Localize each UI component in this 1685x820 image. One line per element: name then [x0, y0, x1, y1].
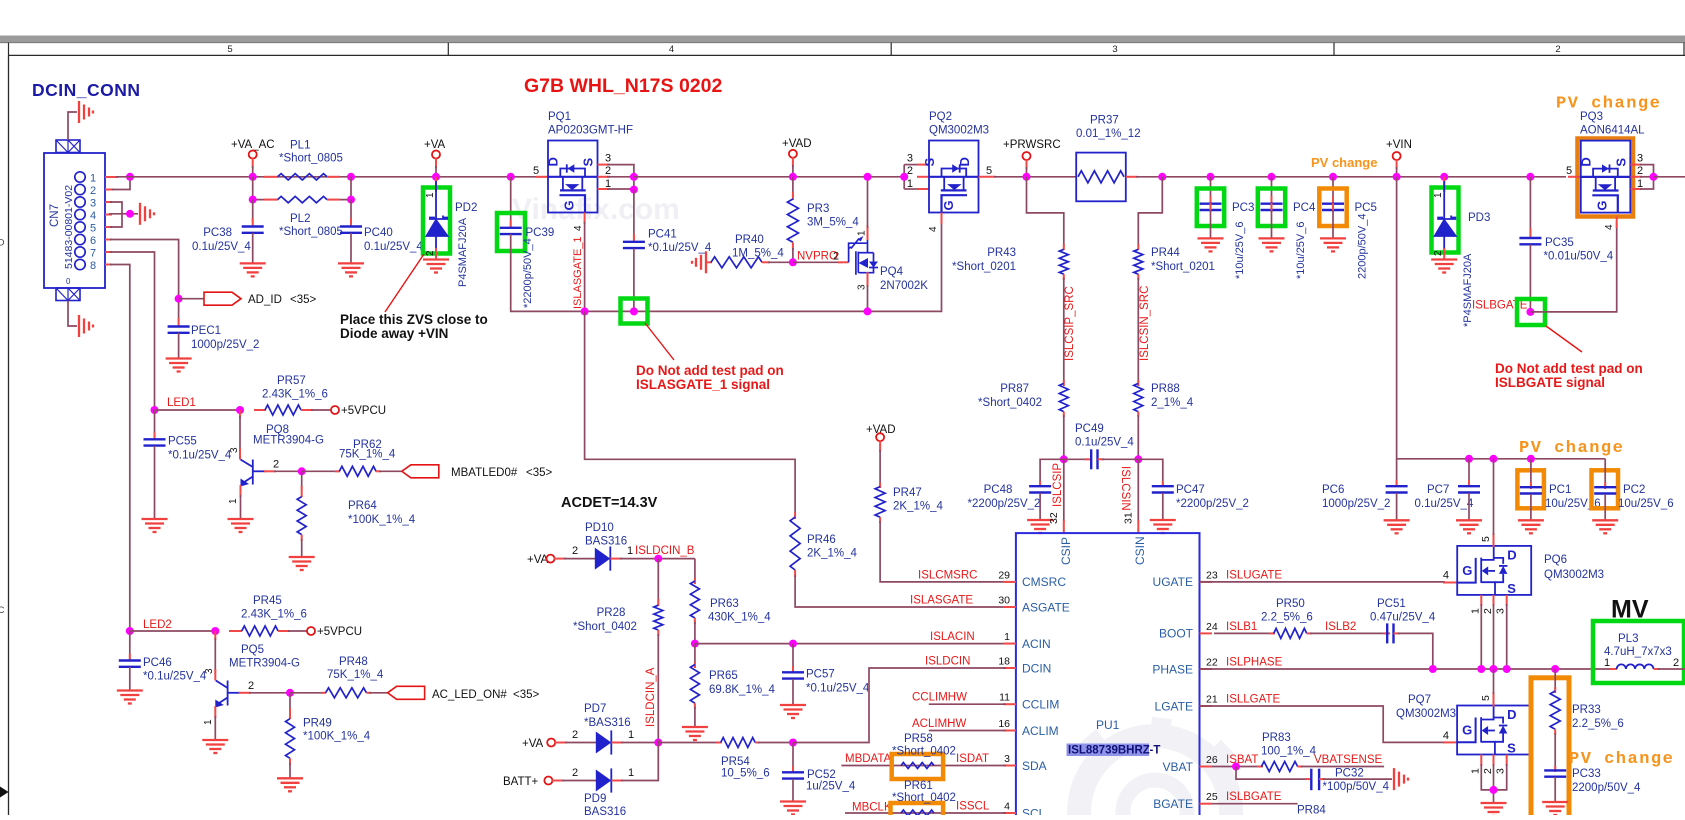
- resistor PR40: [711, 257, 762, 268]
- wire CCLIMHW: [929, 703, 1006, 705]
- CN7 pin4 wire: [105, 214, 112, 216]
- svg-text:*10u/25V_6: *10u/25V_6: [1295, 222, 1307, 280]
- svg-text:PC7: PC7: [1427, 484, 1449, 496]
- svg-text:3: 3: [1495, 608, 1507, 614]
- resistor PR65: [694, 644, 696, 666]
- svg-text:AON6414AL: AON6414AL: [1580, 125, 1645, 137]
- CN7 pin5 wire: [105, 226, 112, 228]
- node +VAD junction: [789, 173, 797, 181]
- svg-text:PR57: PR57: [277, 375, 306, 387]
- svg-text:1: 1: [907, 178, 913, 190]
- svg-text:*2200p/50V_4: *2200p/50V_4: [522, 238, 534, 308]
- node PQ1 pin1 junction: [630, 186, 638, 194]
- svg-text:LED1: LED1: [167, 397, 196, 409]
- ground at CN7 top: [78, 101, 80, 123]
- svg-text:PV change: PV change: [1311, 155, 1377, 170]
- svg-text:2: 2: [90, 185, 96, 197]
- svg-text:PQ4: PQ4: [880, 266, 904, 278]
- node LED2 left junction: [126, 627, 134, 635]
- highlight ISL88739BHRZ: [1067, 744, 1150, 757]
- callout line ISLBGATE note: [1546, 326, 1582, 352]
- svg-text:PL2: PL2: [290, 213, 310, 225]
- CN7 bottom mounting pad: [56, 288, 80, 301]
- svg-text:ISLPHASE: ISLPHASE: [1226, 657, 1283, 669]
- pin CMSRC 29 stub: [1003, 581, 1016, 583]
- svg-text:PC6: PC6: [1322, 484, 1344, 496]
- wire +VAD to PR47: [879, 441, 881, 453]
- svg-text:1: 1: [857, 230, 868, 236]
- wire rail to right edge: [1654, 176, 1685, 178]
- svg-text:+VA: +VA: [522, 738, 544, 750]
- capacitor PC4: [1261, 202, 1283, 204]
- resistor PR48: [290, 692, 326, 694]
- wire PD7 to junction: [611, 742, 623, 744]
- wire PQ4 drain to rail: [867, 225, 869, 240]
- svg-text:ISDAT: ISDAT: [956, 753, 989, 765]
- node PL1 right junction: [347, 173, 355, 181]
- svg-text:PC48: PC48: [984, 484, 1013, 496]
- node PL2 left: [249, 196, 257, 204]
- node PC57 junction: [789, 640, 797, 648]
- svg-text:1: 1: [425, 192, 436, 198]
- wire PC1 to ground: [1530, 494, 1532, 520]
- resistor PR63: [694, 578, 696, 584]
- svg-text:2: 2: [1482, 608, 1494, 614]
- frame arrow marker: [0, 787, 9, 798]
- resistor PR50: [1214, 632, 1274, 634]
- svg-text:8: 8: [90, 260, 96, 272]
- PQ8 emitter to ground: [240, 485, 242, 497]
- svg-text:3: 3: [605, 153, 611, 165]
- svg-text:*0.1u/25V_4: *0.1u/25V_4: [806, 683, 870, 695]
- pin UGATE 23 stub: [1200, 581, 1213, 583]
- pin CCLIM 11 stub: [1003, 703, 1016, 705]
- svg-text:ISBAT: ISBAT: [1226, 754, 1258, 766]
- wire ISLBGATE to PQ3 gate: [1530, 222, 1616, 312]
- svg-text:ACIN: ACIN: [1022, 637, 1051, 651]
- CN7 pin6 wire to AD_ID: [105, 239, 112, 241]
- highlight green box PD3: [1432, 188, 1459, 253]
- svg-text:PR44: PR44: [1151, 247, 1180, 259]
- node +VIN junction: [1393, 173, 1401, 181]
- svg-text:3: 3: [204, 668, 215, 674]
- svg-text:32: 32: [1048, 512, 1060, 524]
- node PQ8 base junction: [298, 467, 306, 475]
- svg-text:PD7: PD7: [584, 703, 606, 715]
- CN7 pin1 stub: [105, 176, 118, 178]
- wire CSIP pin stub: [1063, 459, 1065, 522]
- svg-text:G: G: [562, 200, 577, 210]
- ic PU1 box: [1016, 533, 1200, 820]
- svg-text:DCIN: DCIN: [1022, 661, 1051, 675]
- svg-text:BOOT: BOOT: [1159, 627, 1194, 641]
- svg-text:*Short_0402: *Short_0402: [892, 746, 956, 758]
- resistor PR45: [229, 630, 242, 632]
- svg-text:*Short_0402: *Short_0402: [892, 792, 956, 804]
- wire PC2 to ground: [1604, 494, 1606, 520]
- svg-text:BAS316: BAS316: [584, 806, 626, 815]
- svg-text:2: 2: [1637, 165, 1643, 177]
- svg-text:4.7uH_7x7x3: 4.7uH_7x7x3: [1604, 646, 1672, 658]
- wire PQ4 source to ISLASGATE_1 rail: [867, 272, 869, 287]
- svg-text:18: 18: [998, 656, 1010, 668]
- node PQ6 drain junction: [1490, 455, 1498, 463]
- ground below PC48: [1027, 519, 1053, 521]
- wire ISLASGATE_1 bottom rail: [548, 222, 942, 311]
- svg-text:2.43K_1%_6: 2.43K_1%_6: [241, 609, 307, 621]
- capacitor PC55: [154, 410, 156, 438]
- CN7 pin3 wire: [105, 201, 112, 203]
- svg-text:PR84: PR84: [1297, 805, 1326, 816]
- resistor PR54: [658, 742, 720, 744]
- svg-text:3: 3: [907, 153, 913, 165]
- svg-text:Place this ZVS close to: Place this ZVS close to: [340, 312, 488, 327]
- pin ACLIM 16 stub: [1003, 730, 1016, 732]
- ground below PC3: [1198, 237, 1224, 239]
- svg-text:ACDET=14.3V: ACDET=14.3V: [561, 495, 658, 511]
- node PQ3 rail junction: [1650, 173, 1658, 181]
- svg-text:1: 1: [1470, 768, 1482, 774]
- highlight orange box PC1: [1517, 470, 1544, 508]
- svg-text:PC49: PC49: [1075, 423, 1104, 435]
- wire ISLACIN: [695, 643, 1016, 645]
- svg-text:ISLCSIN_SRC: ISLCSIN_SRC: [1139, 286, 1151, 361]
- svg-text:METR3904-G: METR3904-G: [253, 435, 324, 447]
- wire PR65 to ground: [694, 707, 696, 727]
- svg-text:+VAD: +VAD: [782, 138, 812, 150]
- capacitor PC40: [350, 200, 352, 222]
- node PC52 junction: [789, 739, 797, 747]
- svg-text:*2200p/25V_2: *2200p/25V_2: [1176, 498, 1249, 510]
- wire CN7 bottom pad to ground: [68, 301, 77, 327]
- svg-text:BGATE: BGATE: [1153, 797, 1193, 811]
- svg-text:2N7002K: 2N7002K: [880, 280, 928, 292]
- svg-text:PC3: PC3: [1232, 202, 1254, 214]
- wire ISBAT row: [1212, 766, 1263, 768]
- svg-text:1: 1: [627, 545, 633, 557]
- node ISLASGATE_1 gate junction: [581, 307, 589, 315]
- svg-text:PQ1: PQ1: [548, 111, 571, 123]
- svg-text:<35>: <35>: [290, 294, 317, 306]
- svg-text:QM3002M3: QM3002M3: [1544, 569, 1604, 581]
- ground at CN7 pins345: [139, 203, 141, 225]
- svg-text:CMSRC: CMSRC: [1022, 575, 1066, 589]
- pin5 stub PQ1: [536, 176, 548, 178]
- watermark gear: [1065, 718, 1248, 820]
- svg-text:2: 2: [1433, 250, 1444, 256]
- svg-text:+VA_AC: +VA_AC: [231, 139, 275, 151]
- pin DCIN 18 stub: [1003, 667, 1016, 669]
- svg-text:PR28: PR28: [597, 607, 626, 619]
- ruler ticks: [8, 43, 10, 56]
- PQ6 pins 1-2-3 to PHASE: [1480, 595, 1482, 606]
- wire +VA_AC to rail: [252, 158, 254, 168]
- node PHASE PQ6 pin1: [1477, 665, 1485, 673]
- resistor PR46: [794, 512, 796, 519]
- wire NVPRO to PQ4 gate: [793, 261, 842, 263]
- svg-text:*100K_1%_4: *100K_1%_4: [303, 731, 371, 743]
- svg-text:PR63: PR63: [710, 598, 739, 610]
- svg-text:D: D: [957, 157, 972, 166]
- wire PC41 to ISLASGATE_1 rail: [633, 249, 635, 312]
- node ISLCSIN junction: [1134, 455, 1142, 463]
- pin ACIN 1 stub: [1003, 643, 1016, 645]
- svg-text:D: D: [0, 238, 5, 249]
- resistor PR37 box: [1076, 153, 1126, 202]
- wire PR63 to ACIN node: [694, 622, 696, 644]
- svg-text:PR48: PR48: [339, 656, 368, 668]
- svg-text:PR46: PR46: [807, 534, 836, 546]
- svg-text:25: 25: [1206, 791, 1218, 803]
- wire ground to PR40: [706, 261, 712, 263]
- node PL2 right: [347, 196, 355, 204]
- wire ISLLGATE to PQ7 gate: [1200, 706, 1446, 742]
- svg-text:+5VPCU: +5VPCU: [317, 626, 362, 638]
- svg-text:G: G: [1594, 200, 1609, 210]
- svg-text:PC32: PC32: [1335, 768, 1364, 780]
- ground below PC4: [1259, 237, 1285, 239]
- node LED2 PQ5 junction: [211, 627, 219, 635]
- ground at CN7 bottom: [78, 315, 80, 337]
- wire PC39 down to ISLASGATE_1 rail: [511, 234, 548, 311]
- svg-text:ISLB2: ISLB2: [1325, 621, 1356, 633]
- wire PC47 branch: [1138, 459, 1163, 486]
- svg-text:D: D: [546, 157, 561, 166]
- svg-text:G: G: [1462, 563, 1472, 578]
- CN7 pin circles: [75, 172, 85, 270]
- wire +VA to rail: [435, 158, 437, 168]
- wire PC52 to ground: [792, 779, 794, 801]
- node PQ4 drain rail junction: [864, 173, 872, 181]
- callout line ISLASGATE_1 note: [645, 323, 674, 360]
- svg-text:3M_5%_4: 3M_5%_4: [807, 217, 859, 229]
- svg-text:1: 1: [90, 173, 96, 185]
- node PC35 rail junction: [1526, 173, 1534, 181]
- svg-text:PC51: PC51: [1377, 598, 1406, 610]
- wire PHASE to PR33: [1554, 669, 1556, 692]
- PQ5 emitter to ground: [214, 706, 216, 718]
- capacitor PC6: [1396, 459, 1398, 486]
- svg-text:Do Not add test pad on: Do Not add test pad on: [1495, 361, 1643, 376]
- wire PD2 to ground: [435, 248, 437, 259]
- svg-text:4: 4: [669, 44, 674, 55]
- svg-text:+VIN: +VIN: [1386, 139, 1412, 151]
- highlight box PC5: [1319, 189, 1346, 227]
- svg-text:PC40: PC40: [364, 227, 393, 239]
- PQ2 gate stub: [941, 213, 943, 225]
- svg-text:MBCLK: MBCLK: [852, 802, 892, 814]
- node PD3 rail junction: [1440, 173, 1448, 181]
- node PC7 junction: [1465, 455, 1473, 463]
- wire PC7 to ground: [1468, 493, 1470, 520]
- ruler line: [8, 54, 1685, 56]
- ground right of PC32: [1393, 768, 1395, 790]
- svg-text:MBDATA: MBDATA: [845, 753, 892, 765]
- svg-text:PR58: PR58: [904, 733, 933, 745]
- wire PQ7 drain pin5 to PHASE: [1493, 692, 1495, 707]
- wire +VA to PD10: [554, 558, 566, 560]
- wire PQ6 drain pin5: [1493, 533, 1495, 547]
- svg-text:1000p/25V_2: 1000p/25V_2: [1322, 498, 1390, 510]
- svg-text:2K_1%_4: 2K_1%_4: [893, 501, 943, 513]
- svg-text:*10u/25V_6: *10u/25V_6: [1234, 222, 1246, 280]
- svg-text:75K_1%_4: 75K_1%_4: [327, 669, 384, 681]
- svg-text:PV change: PV change: [1519, 439, 1624, 458]
- svg-text:D: D: [1507, 707, 1516, 722]
- svg-text:4: 4: [1604, 224, 1615, 230]
- CN7 pin8 wire down to LED2: [105, 264, 112, 266]
- svg-text:2_1%_4: 2_1%_4: [1151, 397, 1194, 409]
- svg-text:7: 7: [90, 248, 96, 260]
- wire PC41 branch: [633, 190, 635, 240]
- svg-text:PQ2: PQ2: [929, 111, 952, 123]
- node LED1 PQ8 junction: [236, 406, 244, 414]
- svg-text:ISLBGATE signal: ISLBGATE signal: [1495, 375, 1605, 390]
- svg-text:PR47: PR47: [893, 487, 922, 499]
- wire CN7 top pad to ground: [68, 112, 77, 140]
- node ISLBGATE junction: [1526, 308, 1534, 316]
- svg-text:AP0203GMT-HF: AP0203GMT-HF: [548, 125, 633, 137]
- svg-text:PC38: PC38: [203, 227, 232, 239]
- ground below PC55: [142, 518, 168, 520]
- svg-text:4: 4: [1443, 570, 1449, 582]
- resistor PR58 short: [901, 763, 934, 769]
- inductor PL3: [1610, 668, 1617, 670]
- ground below PR65: [682, 726, 708, 728]
- wire ISLDCIN_A mid: [657, 634, 659, 743]
- capacitor PC3: [1200, 202, 1222, 204]
- svg-text:<35>: <35>: [513, 689, 540, 701]
- wire PC4 branch: [1271, 177, 1273, 200]
- wire +VIN to rail: [1396, 159, 1398, 169]
- svg-text:1u/25V_4: 1u/25V_4: [806, 781, 856, 793]
- svg-text:PD10: PD10: [585, 522, 614, 534]
- resistor PR57: [254, 409, 266, 411]
- svg-text:1: 1: [1604, 657, 1610, 669]
- wire ISLASGATE_1 to PR46: [585, 311, 796, 519]
- ground below PC1: [1518, 519, 1544, 521]
- resistor PR62: [302, 470, 340, 472]
- highlight orange box PC2: [1592, 470, 1619, 508]
- wire PR64 to ground: [301, 539, 303, 557]
- svg-text:MBATLED0#: MBATLED0#: [451, 467, 518, 479]
- svg-text:PC35: PC35: [1545, 237, 1574, 249]
- svg-text:1M_5%_4: 1M_5%_4: [732, 248, 784, 260]
- svg-text:*BAS316: *BAS316: [584, 717, 631, 729]
- connector CN7 body: [44, 153, 105, 288]
- netflag AD_ID: [204, 292, 241, 305]
- svg-text:S: S: [581, 158, 596, 167]
- svg-text:PC2: PC2: [1623, 484, 1645, 496]
- svg-text:5: 5: [90, 223, 96, 235]
- svg-text:2: 2: [248, 680, 254, 692]
- capacitor PC1: [1530, 459, 1532, 488]
- svg-text:PQ7: PQ7: [1408, 694, 1431, 706]
- wire PC6 to ground: [1396, 493, 1398, 520]
- highlight orange box PR33 PC33: [1531, 678, 1569, 818]
- capacitor PEC1: [178, 318, 180, 326]
- svg-text:2.2_5%_6: 2.2_5%_6: [1261, 612, 1313, 624]
- wire +VAD to rail: [792, 157, 794, 167]
- wire CSIN pin stub: [1137, 459, 1139, 522]
- svg-text:QM3002M3: QM3002M3: [1396, 708, 1456, 720]
- wire rail PQ1 to PQ2: [634, 176, 904, 178]
- svg-text:30: 30: [998, 595, 1010, 607]
- node PQ7 source junction: [1490, 786, 1498, 794]
- svg-text:0.1u/25V_4: 0.1u/25V_4: [1415, 498, 1474, 510]
- svg-text:ISLASGATE_1: ISLASGATE_1: [572, 236, 584, 309]
- highlight green box no-test-pad ISLASGATE_1: [621, 299, 648, 324]
- wire PL2 parallel loop: [253, 177, 277, 200]
- svg-text:ISL88739BHRZ: ISL88739BHRZ: [1068, 745, 1150, 757]
- svg-text:16: 16: [998, 718, 1010, 730]
- resistor PR49: [289, 693, 291, 712]
- svg-text:3: 3: [1637, 153, 1643, 165]
- svg-text:PL3: PL3: [1618, 633, 1638, 645]
- svg-text:-T: -T: [1150, 745, 1161, 757]
- svg-text:0.1u/25V_4: 0.1u/25V_4: [192, 241, 251, 253]
- capacitor PC7: [1468, 459, 1470, 486]
- transistor PQ4 2N7002K: [849, 238, 874, 280]
- svg-text:2: 2: [833, 251, 839, 263]
- wire PC55 to ground: [154, 446, 156, 519]
- svg-text:PC5: PC5: [1355, 202, 1377, 214]
- pin ASGATE 30 stub: [1003, 606, 1016, 608]
- svg-text:1: 1: [1470, 608, 1482, 614]
- ground below PC47: [1150, 519, 1176, 521]
- node pin1-pin2 junction: [126, 173, 134, 181]
- svg-text:PD9: PD9: [584, 793, 606, 805]
- svg-text:100_1%_4: 100_1%_4: [1261, 746, 1317, 758]
- inductor PL2 (Short_0805): [264, 199, 278, 201]
- ground below PQ7: [1481, 802, 1507, 804]
- svg-text:22: 22: [1206, 657, 1218, 669]
- wire PR33 to PC33: [1554, 729, 1556, 735]
- power +5VPCU at PR57: [331, 406, 339, 414]
- svg-text:PV change: PV change: [1556, 95, 1661, 114]
- node PC1 junction: [1527, 455, 1535, 463]
- svg-text:BAS316: BAS316: [585, 536, 627, 548]
- wire PR63 branch: [694, 559, 696, 581]
- svg-text:5: 5: [227, 44, 232, 55]
- ground below PC52: [780, 800, 806, 802]
- svg-text:2: 2: [1673, 657, 1679, 669]
- node AD_ID junction: [178, 293, 180, 322]
- transistor PQ1 AP0203GMT-HF: [546, 141, 598, 213]
- svg-text:1000p/25V_2: 1000p/25V_2: [191, 339, 259, 351]
- capacitor PC5: [1322, 202, 1344, 204]
- svg-text:ISLCSIP_SRC: ISLCSIP_SRC: [1064, 286, 1076, 361]
- capacitor PC52: [792, 743, 794, 773]
- svg-text:PC39: PC39: [526, 227, 555, 239]
- diode PD7 BAS316: [596, 732, 612, 754]
- transistor PQ8 METR3904-G: [239, 410, 241, 418]
- capacitor PC46: [129, 631, 131, 660]
- transistor PQ6 QM3002M3: [1457, 546, 1531, 596]
- wire PC33 to ground: [1554, 777, 1556, 802]
- highlight green box ISLBGATE: [1517, 299, 1545, 325]
- svg-text:PR3: PR3: [807, 203, 829, 215]
- diode PD3 TVS: [1443, 177, 1445, 192]
- resistor PR61 short: [901, 810, 934, 816]
- power +5VPCU at PR45: [307, 627, 315, 635]
- capacitor PC35: [1519, 237, 1541, 239]
- svg-text:PC4: PC4: [1293, 202, 1316, 214]
- svg-text:PQ3: PQ3: [1580, 111, 1603, 123]
- wire PR47 to CMSRC: [880, 521, 1016, 582]
- wire PR46 to ASGATE: [795, 575, 1016, 607]
- resistor PR64: [301, 471, 303, 490]
